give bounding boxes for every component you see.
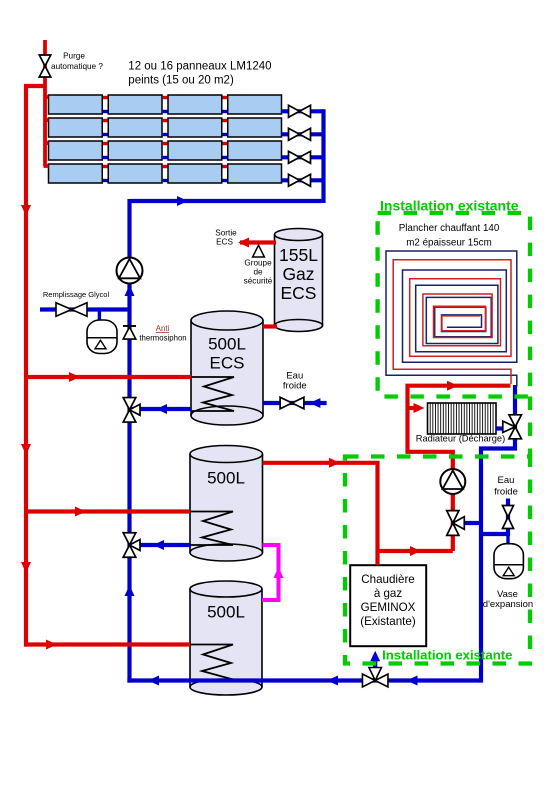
wire: sortie ECS [238,238,276,248]
wire: red solar hot pipe from panels with purge [24,40,49,166]
svg-text:froide: froide [283,381,307,392]
svg-text:peints (15 ou 20 m2): peints (15 ou 20 m2) [128,75,234,87]
wire: radiator supply stub [408,403,425,413]
installation existante box (boiler) [345,457,530,664]
wire: boiler branch to mixing valve [378,546,453,556]
solar panel row 2 [49,118,282,137]
label: radiateur [416,434,505,444]
svg-text:Purge: Purge [63,52,85,61]
svg-text:froide: froide [494,487,518,498]
svg-text:Eau: Eau [498,475,515,486]
boiler GEMINOX box [350,565,426,646]
tank 500L middle [190,446,263,562]
glycol fill valve [56,303,87,317]
svg-text:155L: 155L [279,245,318,265]
label: plancher chauffant [399,223,500,249]
svg-text:500L: 500L [207,603,245,622]
panel isolation valves [289,105,311,186]
pump P2 (boiler circuit) [440,469,465,494]
label: purge automatique [51,52,103,72]
label: tank 155L [279,245,318,303]
label: installation existante (top) [380,198,519,214]
svg-text:Installation existante: Installation existante [380,198,519,214]
svg-text:thermosiphon: thermosiphon [139,334,186,343]
label: chaudiere [360,573,416,628]
tank 500L bottom [190,581,262,695]
floor heating spiral (navy return) [386,251,517,387]
svg-text:Radiateur (Décharge): Radiateur (Décharge) [416,434,505,444]
3-way valve V4 (boiler return) [362,668,388,688]
svg-text:automatique ?: automatique ? [51,62,103,71]
svg-text:ECS: ECS [281,283,317,303]
svg-text:d'expansion: d'expansion [483,599,533,610]
tank 500L ECS [191,311,263,425]
wire: boiler bottom stub [370,651,380,681]
safety group triangle [253,245,265,257]
wire: blue solar return riser [125,196,189,683]
svg-text:Remplissage Glycol: Remplissage Glycol [43,290,110,299]
label: anti thermosiphon [139,324,186,343]
svg-text:500L: 500L [208,335,246,354]
svg-text:GEMINOX: GEMINOX [361,601,416,614]
glycol expansion vessel [87,320,117,354]
label: eau froide (right) [494,475,518,498]
wire: red branch to bottom tank coil [24,640,190,650]
svg-text:ECS: ECS [210,354,245,373]
wire: bottom blue return line [127,676,481,686]
wire: cold water inlet tank ECS [263,398,327,408]
label: remplissage glycol [43,290,110,299]
label: groupe de securite [244,259,273,286]
green connector segment [528,397,532,457]
svg-text:Plancher chauffant 140: Plancher chauffant 140 [399,223,500,234]
purge valve [39,55,51,77]
svg-text:Sortie: Sortie [215,229,237,238]
label: middle tank 500L [207,469,245,488]
svg-text:Chaudière: Chaudière [361,573,415,586]
floor heating spiral (red supply) [393,260,511,384]
svg-text:(Existante): (Existante) [360,615,416,628]
label: sortie ECS [215,229,237,247]
label: installation existante (bottom) [382,648,512,663]
svg-text:Anti: Anti [156,324,170,333]
wire: glycol fill line [40,310,130,321]
3-way valve V5 (radiator) [503,415,522,439]
wire: heating circuit blue return (right) [453,385,515,683]
coil of tank 500L ECS [191,377,234,411]
label: vase d expansion [483,589,533,610]
solar panel row 3 [49,141,282,160]
tank 155L Gaz ECS [275,229,323,332]
3-way mixing valve V3 (boiler) [447,511,465,536]
installation existante box (floor heating) [378,213,530,397]
coil of bottom 500L tank [190,645,233,680]
cold water valve (right) [503,506,514,529]
svg-text:Gaz: Gaz [282,264,314,284]
svg-text:12 ou 16 panneaux LM1240: 12 ou 16 panneaux LM1240 [128,61,271,73]
svg-text:sécurité: sécurité [244,277,273,286]
wire: red branch to tank ECS coil [26,372,191,382]
wire: blue cold manifold right of panels [130,109,324,203]
label: panneaux [128,61,271,87]
radiator (discharge) [428,403,497,434]
wire: tank ECS to 155L gas tank [263,324,277,328]
anti-thermosiphon check valve [123,326,136,339]
solar panel row 1 [49,95,282,114]
svg-text:à gaz: à gaz [374,587,403,600]
svg-text:de: de [253,268,263,277]
pump P1 (solar) [117,258,143,284]
svg-text:500L: 500L [207,469,245,488]
svg-text:Groupe: Groupe [244,259,272,268]
label: tank 500L ECS [208,335,246,373]
wire: red solar supply left riser [21,84,31,647]
wire: magenta link between storage tanks [262,545,284,600]
label: bottom tank 500L [207,603,245,622]
3-way valve V2 (middle tank) [123,533,140,558]
wire: middle tank to boiler [263,458,378,565]
wire: heating supply red (pump riser, radiator, floor) [408,381,511,551]
cold water valve (tank ECS) [280,397,304,409]
svg-text:Installation existante: Installation existante [382,648,512,663]
wire: radiator to 3-way valve [496,426,504,430]
label: eau froide (tank ECS) [283,370,307,391]
svg-text:ECS: ECS [216,238,233,247]
expansion vessel (vase d expansion) [494,544,523,579]
coil of middle 500L tank [190,512,233,546]
wire: middle tank return to 3-way valve [130,540,191,550]
wire: red branch to middle tank coil [26,507,190,517]
wire: tank ECS return to 3-way valve [130,404,192,414]
wire: cold water + expansion vessel line (right) [481,499,510,545]
svg-text:m2 épaisseur 15cm: m2 épaisseur 15cm [406,238,492,249]
solar panel row 4 [49,164,282,183]
3-way valve V1 (tank ECS) [123,398,140,423]
